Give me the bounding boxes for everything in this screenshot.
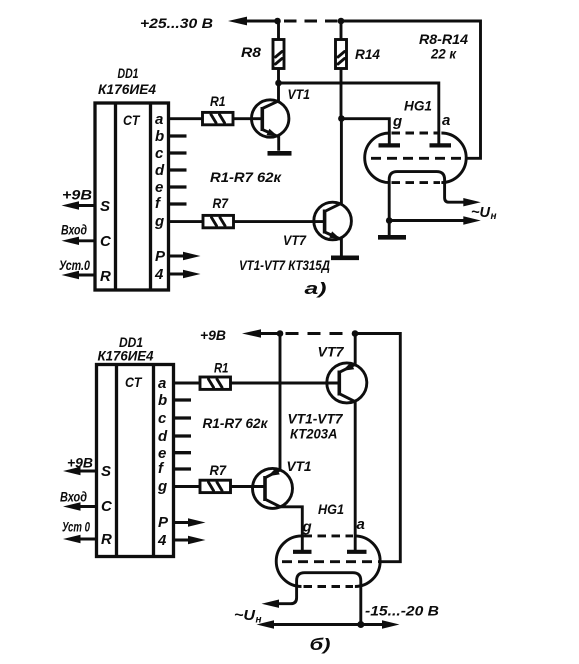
svg-text:~U: ~U — [471, 204, 491, 221]
wire collector to anode a — [279, 83, 439, 144]
transistor VT7 b) — [327, 334, 367, 551]
resistor R7 b) — [200, 480, 231, 492]
svg-text:c: c — [155, 145, 164, 162]
ground VT1 — [268, 151, 292, 156]
svg-text:VT1: VT1 — [288, 86, 311, 102]
svg-text:К176ИЕ4: К176ИЕ4 — [98, 81, 156, 97]
svg-text:R1: R1 — [210, 93, 226, 109]
cathode heater shape — [389, 172, 469, 222]
svg-text:a: a — [158, 375, 166, 392]
svg-text:+9В: +9В — [62, 187, 92, 203]
transistor VT1 b) — [253, 468, 303, 551]
wire R7 to VT7 base — [234, 220, 324, 223]
svg-text:R: R — [101, 531, 112, 548]
wire top rail b) right + right rail + grid link — [355, 334, 400, 562]
svg-text:VT1: VT1 — [287, 458, 312, 474]
pin P arrow — [169, 255, 189, 258]
svg-text:e: e — [155, 179, 163, 196]
arrow supply a) — [228, 17, 247, 26]
svg-text:R14: R14 — [355, 46, 380, 62]
pin S arrow b) — [76, 470, 97, 473]
arrow -15V left — [257, 620, 275, 628]
svg-text:a: a — [442, 112, 450, 129]
wire R7 to VT1 base b) — [231, 485, 264, 488]
pin C arrow — [74, 239, 95, 242]
svg-text:g: g — [302, 519, 312, 536]
resistor R7 — [203, 215, 234, 227]
pin f stub — [169, 202, 187, 205]
node VT1 collector junction — [275, 80, 282, 87]
ground tube a) — [388, 221, 391, 236]
pin 4 arrow b) — [174, 539, 194, 542]
svg-text:22 к: 22 к — [430, 46, 457, 62]
wire top rail b) dashed — [286, 332, 352, 335]
pin b stub — [169, 134, 187, 137]
svg-text:Вход: Вход — [61, 222, 87, 238]
svg-text:a: a — [357, 516, 365, 533]
pin b stub b) — [174, 398, 192, 401]
svg-text:R1-R7 62к: R1-R7 62к — [210, 169, 282, 185]
svg-text:Уст.0: Уст.0 — [59, 257, 90, 273]
cathode heater shape b) — [276, 573, 361, 625]
svg-text:C: C — [100, 233, 112, 250]
wire top rail b) solid left — [257, 332, 280, 335]
wire VT1 emitter rail — [279, 334, 282, 471]
pin e stub — [169, 185, 187, 188]
wire top rail dashed — [284, 20, 338, 23]
wire pin a to R1 — [169, 117, 203, 120]
node rail b) 2 — [352, 330, 359, 337]
svg-text:4: 4 — [157, 532, 167, 549]
pin S arrow — [74, 204, 95, 207]
wire top rail right + right rail down + grid link — [341, 21, 481, 158]
arrow supply b) — [242, 329, 261, 337]
grid dashed line — [371, 157, 467, 160]
wire pin g to R7 — [169, 220, 204, 223]
pin c stub — [169, 151, 187, 154]
svg-text:б): б) — [310, 635, 331, 654]
svg-text:P: P — [155, 248, 166, 265]
tube HG1 a) envelope — [365, 133, 467, 183]
electrode bar g — [379, 143, 401, 147]
svg-text:КТ203А: КТ203А — [290, 427, 338, 442]
svg-text:VT7: VT7 — [283, 232, 307, 248]
node cathode left — [386, 217, 393, 224]
wire top rail solid left — [243, 20, 278, 23]
svg-text:+25...30 В: +25...30 В — [140, 15, 213, 31]
pin C arrow b) — [76, 505, 97, 508]
arrow Un b) — [262, 600, 280, 608]
svg-text:R7: R7 — [213, 195, 230, 211]
svg-text:R1-R7 62к: R1-R7 62к — [203, 416, 269, 431]
svg-text:HG1: HG1 — [318, 501, 344, 517]
wire pin a to R1 b) — [174, 382, 201, 385]
pin R arrow b) — [76, 538, 97, 541]
resistor R1 b) — [200, 377, 231, 389]
svg-text:Вход: Вход — [60, 489, 87, 505]
svg-text:а): а) — [305, 279, 327, 298]
svg-text:VT1-VT7 КТ315Д: VT1-VT7 КТ315Д — [239, 258, 330, 273]
resistor R14 — [336, 21, 347, 119]
svg-text:~U: ~U — [234, 607, 256, 624]
pin P arrow b) — [174, 521, 194, 524]
node top rail 2 — [338, 18, 345, 25]
pin f stub b) — [174, 467, 192, 470]
node cathode bottom b) — [357, 621, 364, 628]
node R14/VT7 collector — [338, 115, 345, 122]
wire -15...-20V line — [266, 623, 390, 626]
pin d stub — [169, 168, 187, 171]
pin 4 arrow — [169, 273, 189, 276]
svg-text:VT7: VT7 — [318, 344, 345, 360]
svg-text:HG1: HG1 — [404, 98, 432, 114]
svg-text:d: d — [158, 428, 168, 445]
svg-text:b: b — [158, 392, 167, 409]
svg-text:C: C — [101, 498, 113, 515]
electrode bar a b) — [347, 550, 367, 554]
svg-text:g: g — [392, 113, 402, 130]
svg-text:CT: CT — [125, 374, 143, 390]
svg-text:+9В: +9В — [200, 327, 226, 343]
svg-text:R7: R7 — [210, 462, 228, 478]
svg-text:c: c — [158, 410, 167, 427]
svg-text:-15...-20 В: -15...-20 В — [365, 603, 439, 619]
node rail b) 1 — [277, 330, 284, 337]
svg-text:К176ИЕ4: К176ИЕ4 — [98, 348, 154, 364]
svg-text:R8: R8 — [241, 44, 261, 60]
arrow Un lower — [463, 216, 481, 224]
pin d stub b) — [174, 434, 192, 437]
svg-text:g: g — [157, 478, 167, 495]
wire R1 to VT7 base b) — [231, 382, 338, 385]
node top rail 1 — [274, 18, 281, 25]
wire R1 to VT1 base — [233, 117, 261, 120]
grid dashed line b) — [282, 560, 380, 563]
svg-text:S: S — [100, 198, 110, 215]
arrow -15V right — [382, 620, 400, 628]
pin R arrow — [74, 274, 95, 277]
IC DD1 a) — [95, 103, 169, 290]
svg-text:d: d — [155, 162, 165, 179]
wire pin g to R7 b) — [174, 485, 201, 488]
resistor R8 — [273, 21, 284, 83]
svg-text:Уст 0: Уст 0 — [62, 519, 90, 535]
svg-text:4: 4 — [154, 266, 164, 283]
electrode bar g b) — [293, 550, 312, 554]
transistor VT1 — [252, 83, 289, 151]
ground VT7 a) — [331, 255, 359, 260]
svg-text:R1: R1 — [214, 360, 229, 376]
svg-text:a: a — [155, 111, 163, 128]
svg-text:DD1: DD1 — [118, 65, 139, 81]
wire to grid electrode g — [341, 119, 389, 144]
svg-text:P: P — [158, 514, 169, 531]
wire Un lower — [389, 219, 469, 222]
arrow Un upper — [463, 198, 481, 206]
svg-text:R: R — [100, 268, 111, 285]
tube HG1 b) envelope — [276, 536, 380, 587]
svg-text:S: S — [101, 463, 111, 480]
pin c stub b) — [174, 416, 192, 419]
svg-text:н: н — [491, 211, 497, 222]
IC DD1 b) — [97, 365, 174, 557]
resistor R1 — [203, 112, 234, 124]
svg-text:g: g — [154, 213, 164, 230]
transistor VT7 a) — [314, 119, 352, 256]
electrode bar a — [430, 143, 452, 147]
svg-text:+9В: +9В — [67, 455, 93, 471]
svg-text:VT1-VT7: VT1-VT7 — [288, 412, 345, 427]
pin e stub b) — [174, 451, 192, 454]
svg-text:b: b — [155, 128, 164, 145]
svg-text:CT: CT — [123, 112, 141, 128]
